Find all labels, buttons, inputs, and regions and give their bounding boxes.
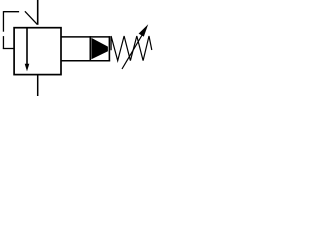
adjustment arrow across spring	[122, 24, 148, 69]
background	[0, 0, 157, 96]
lower right port line / check box bottom edge	[61, 60, 111, 62]
bottom port line	[37, 75, 39, 96]
check box left edge	[89, 36, 91, 61]
valve body (main square)	[14, 28, 61, 75]
pilot line top dash	[3, 11, 19, 13]
pilot line into valve left side	[3, 48, 14, 50]
top vent/pilot port line	[37, 0, 39, 25]
diagonal pilot segment	[25, 11, 37, 24]
flow-path arrow (inside valve body, pointing down)	[25, 28, 30, 72]
flow direction triangle (filled)	[91, 38, 108, 59]
pilot line left dash A	[2, 11, 4, 32]
upper right port line / check box top edge	[61, 36, 111, 38]
hydraulic pressure-control valve schematic	[0, 0, 157, 96]
spring (zigzag)	[111, 36, 152, 61]
check box right edge	[108, 36, 110, 61]
pilot line left dash B	[2, 36, 4, 48]
